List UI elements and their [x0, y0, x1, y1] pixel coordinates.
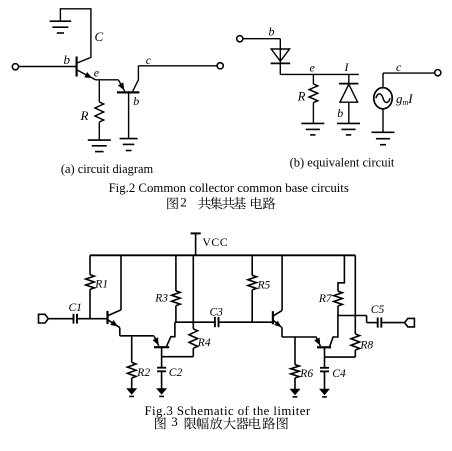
svg-text:2: 2 — [180, 194, 187, 209]
svg-text:3: 3 — [171, 414, 178, 429]
svg-text:b: b — [133, 94, 139, 108]
svg-text:c: c — [146, 53, 152, 67]
svg-text:b: b — [337, 106, 343, 120]
svg-text:R3: R3 — [154, 293, 168, 305]
svg-text:R7: R7 — [318, 293, 333, 305]
svg-text:(b) equivalent circuit: (b) equivalent circuit — [290, 155, 395, 169]
svg-text:(a) circuit diagram: (a) circuit diagram — [61, 162, 154, 176]
svg-text:R2: R2 — [136, 367, 150, 379]
svg-text:e: e — [310, 61, 316, 75]
svg-text:C: C — [95, 29, 104, 44]
svg-text:C2: C2 — [169, 367, 183, 379]
svg-text:R1: R1 — [94, 279, 108, 291]
svg-text:R4: R4 — [197, 337, 211, 349]
svg-text:VCC: VCC — [202, 235, 228, 249]
svg-text:c: c — [396, 60, 402, 74]
svg-text:C1: C1 — [69, 302, 82, 314]
svg-text:e: e — [94, 65, 100, 79]
svg-text:b: b — [64, 52, 71, 67]
svg-text:C3: C3 — [210, 307, 224, 319]
svg-text:R6: R6 — [299, 368, 313, 380]
svg-text:Fig.2 Common collector common: Fig.2 Common collector common base circu… — [109, 181, 349, 195]
svg-text:C4: C4 — [332, 368, 346, 380]
svg-text:R5: R5 — [257, 279, 271, 291]
svg-text:C5: C5 — [371, 304, 385, 316]
svg-text:R8: R8 — [359, 339, 373, 351]
svg-text:R: R — [80, 108, 89, 123]
svg-text:Fig.3 Schematic of the limiter: Fig.3 Schematic of the limiter — [144, 404, 310, 418]
svg-text:b: b — [269, 24, 275, 38]
svg-text:R: R — [297, 89, 306, 103]
